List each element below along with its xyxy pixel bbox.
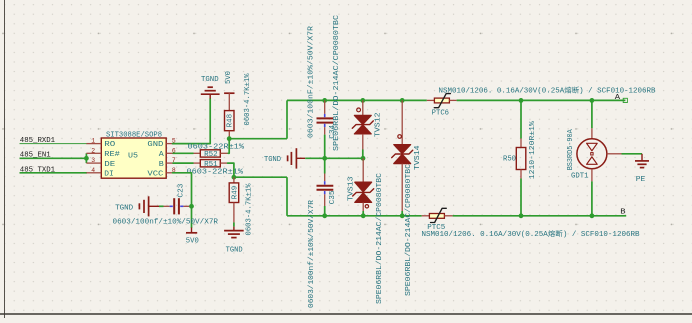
resistor R49 [229,177,239,222]
svg-text:3: 3 [91,157,95,164]
junction TVS12 top [360,98,365,103]
PTC6 info text [439,85,656,95]
svg-text:5V0: 5V0 [225,71,233,84]
svg-text:TVS12: TVS12 [375,113,383,138]
svg-text:DE: DE [104,161,115,169]
svg-text:5V0: 5V0 [186,238,199,246]
U5 pin 3 DE [86,157,115,169]
svg-text:R52: R52 [204,151,218,159]
svg-text:B: B [159,161,164,169]
svg-text:R48: R48 [227,114,235,128]
junction C34 top [322,98,327,103]
fuse PTC5 [422,208,453,232]
wire pin7 to R51 [173,162,194,164]
wire TVS12 to mid rail [362,150,364,159]
svg-text:R50: R50 [503,156,516,164]
junction GDT1 bottom [590,213,595,218]
junction TVS13 B rail [361,213,366,218]
U5 pin 7 B [159,157,176,169]
gas discharge tube GDT1 [571,128,622,181]
svg-text:RO: RO [104,141,115,149]
U5 pin 5 GND [147,138,175,150]
GDT1 value BS3RD5-90A [567,129,575,171]
wire B-net horizontal [234,176,287,178]
svg-text:0603-22R±1%: 0603-22R±1% [188,143,245,151]
U5 pin 4 DI [86,167,113,179]
power 5V0 top [224,71,234,93]
ground TGND top [201,76,220,98]
diode TVS12 [352,100,382,149]
U5 pin 8 VCC [147,167,175,179]
C34 value text [308,25,316,138]
wire EN vertical to pins 2-3 [85,153,87,163]
svg-text:0603/100nf/±10%/50V/X7R: 0603/100nf/±10%/50V/X7R [308,199,316,308]
svg-text:SPE06RBL/DO-214AC/CP0080TBC: SPE06RBL/DO-214AC/CP0080TBC [376,173,384,304]
wire pin8 down [173,173,192,228]
C23 value 0603/100nf [113,219,219,227]
label 485_TXD1 [20,167,55,175]
wire B-net vertical [286,177,288,216]
ground TGND left of C23 [115,196,159,216]
wire pin6 to R52 [173,152,194,154]
svg-text:VCC: VCC [147,171,163,179]
wire TVS13 to B rail [362,211,364,216]
capacitor C34 [317,100,338,138]
svg-text:GND: GND [147,141,163,149]
op-amp U5 SIT3088E body [101,138,166,178]
svg-text:PE: PE [636,176,646,184]
wire TGND to C23 [159,205,164,207]
node B label [620,209,625,217]
U5 title SIT3088E/SOP8 [106,131,162,139]
svg-text:DI: DI [104,171,114,179]
svg-text:SIT3088E/SOP8: SIT3088E/SOP8 [106,131,162,139]
svg-text:C23: C23 [177,184,185,198]
svg-text:TVS13: TVS13 [347,177,355,202]
wire mid rail [305,157,363,159]
svg-text:4: 4 [91,167,95,174]
R50 value 1210-120R±1% [529,120,537,179]
fuse PTC6 [427,94,457,118]
svg-text:TGND: TGND [201,76,219,84]
wire C23 to junction [189,205,191,207]
TVS13 footprint text [376,173,384,304]
PTC5 info text [422,229,640,239]
svg-text:GDT1: GDT1 [571,172,589,180]
wire R51 to junction [228,163,234,177]
wire R50 top [520,100,522,138]
wire A rail left [287,99,427,101]
wire 485_TXD1 to pin4 [20,172,88,174]
svg-text:0603-4.7K±1%: 0603-4.7K±1% [246,183,254,236]
svg-text:BS3RD5-90A: BS3RD5-90A [567,129,575,171]
U5 pin 2 RE# [86,147,119,159]
wire R49 to TGND [233,222,235,226]
svg-text:0603-4.7K±1%: 0603-4.7K±1% [244,73,252,126]
svg-text:SPE06RBL/DO-214AC/CP0080TBC: SPE06RBL/DO-214AC/CP0080TBC [405,164,413,296]
svg-text:RE#: RE# [104,151,120,159]
svg-text:NSM010/1206. 0.16A/30V(0.25A熔断: NSM010/1206. 0.16A/30V(0.25A熔断) / SCF010… [439,85,656,95]
resistor R48 [225,93,235,139]
node A wire-end square [623,98,627,102]
svg-text:U5: U5 [128,153,138,161]
R51 value 0603-22R±1% [187,169,244,177]
wire GDT1 top [591,100,593,128]
svg-text:R49: R49 [231,186,239,200]
wire C34 to mid rail [324,135,326,159]
svg-text:2: 2 [91,147,95,154]
junction R49/B-net [232,175,237,180]
wire GDT1 bottom [591,181,593,215]
wire A rail right [457,99,626,101]
wire B rail left [287,215,422,217]
ground PE [635,154,649,184]
junction R50 top [519,98,524,103]
svg-text:NSM010/1206. 0.16A/30V(0.25A熔断: NSM010/1206. 0.16A/30V(0.25A熔断) / SCF010… [422,229,640,239]
wire pin5 to TGND [173,99,211,144]
svg-text:PTC6: PTC6 [432,109,449,117]
TVS12 footprint text [333,15,341,151]
wire GDT1 to PE [622,153,643,155]
resistor R52 [194,150,229,159]
diode TVS13 [347,158,373,211]
U5 reference U5 [128,153,138,161]
svg-text:TVS14: TVS14 [414,146,422,171]
wire A-net vertical [286,100,288,138]
svg-text:TGND: TGND [226,247,243,255]
wire 485_RXD1 to pin1 [20,143,88,145]
svg-text:0603/100nF/±10%/50V/X7R: 0603/100nF/±10%/50V/X7R [308,25,316,138]
junction TVS14 B rail [400,213,405,218]
svg-text:0603/100nf/±10%/50V/X7R: 0603/100nf/±10%/50V/X7R [113,219,219,227]
junction C23/VCC [189,204,194,209]
power 5V0 bottom [186,228,199,246]
node A label [615,94,621,102]
svg-text:C35: C35 [329,190,337,204]
junction R48/A-net [227,136,232,141]
junction C34 mid rail [322,156,327,161]
wire mid rail to C35 [324,158,326,173]
wire A-net horizontal [229,138,287,140]
wire C35 to B rail [324,206,326,216]
label 485_RXD1 [20,137,55,145]
wire B rail right [453,215,627,217]
resistor R51 [194,160,228,169]
TVS14 footprint text [405,164,413,296]
wire R52 to junction [228,139,229,154]
R52 value 0603-22R±1% [188,143,245,151]
junction EN node [84,156,89,161]
R49 value 0603-4.7K±1% [246,183,254,236]
junction TVS14 top [400,98,405,103]
junction C35 B rail [322,213,327,218]
R48 value 0603-4.7K±1% [244,73,252,126]
U5 pin 6 A [159,147,176,159]
wire 485_EN1 [20,157,87,159]
junction GDT1 top [590,98,595,103]
C35 value text [308,199,316,308]
ground TGND mid [264,148,305,168]
svg-text:B: B [620,209,625,217]
resistor R50 [503,139,526,179]
svg-text:1: 1 [91,138,95,145]
svg-text:SPE06RBL/DO-214AC/CP0080TBC: SPE06RBL/DO-214AC/CP0080TBC [333,15,341,151]
wire R50 bottom [520,179,522,216]
capacitor C35 [317,174,338,207]
capacitor C23 [164,184,190,215]
ground TGND under R49 [224,227,244,255]
wire TVS14 to B rail [401,211,403,216]
svg-text:1210-120R±1%: 1210-120R±1% [529,120,537,179]
junction TVS mid rail [361,156,366,161]
diode TVS14 [392,100,422,211]
junction R50 bottom [519,213,524,218]
U5 pin 1 RO [86,138,115,150]
label 485_EN1 [20,152,51,160]
svg-text:TGND: TGND [115,204,133,212]
svg-text:TGND: TGND [264,156,281,164]
